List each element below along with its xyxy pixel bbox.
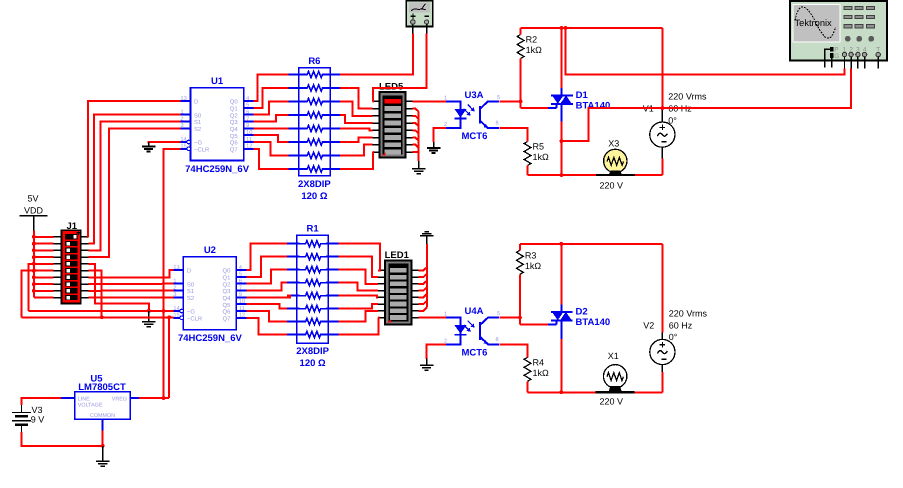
- svg-text:R5: R5: [533, 142, 545, 152]
- svg-text:V2: V2: [643, 320, 654, 330]
- voltage regulator U5 LM7805CT: [61, 374, 139, 431]
- IC U2 74HC259N_6V: [173, 245, 246, 344]
- svg-text:74HC259N_6V: 74HC259N_6V: [185, 164, 250, 175]
- wire top rail R3 D2 V2: [520, 242, 663, 246]
- svg-text:8: 8: [496, 337, 499, 343]
- svg-text:~G: ~G: [187, 309, 195, 316]
- wire U2 Q6 to R1 row7: [246, 311, 287, 322]
- wire J1 pin3 to U1 input: [88, 122, 180, 251]
- svg-text:Q1: Q1: [223, 274, 231, 281]
- resistor R4 1k: [524, 357, 549, 381]
- wire U1 Q5 to R6 row6: [254, 135, 289, 142]
- svg-text:Q2: Q2: [223, 281, 231, 288]
- lamp X1 220V: [596, 351, 635, 407]
- wire R2 bottom to U3A collector node: [519, 59, 523, 109]
- ground at U1 ~G: [142, 142, 156, 152]
- wire R1 row8 to LED1 pin8: [338, 318, 378, 335]
- AC source V1 220Vrms 60Hz: [643, 92, 707, 159]
- svg-text:U2: U2: [204, 245, 216, 256]
- svg-text:G: G: [834, 53, 839, 60]
- svg-text:R4: R4: [533, 357, 545, 367]
- svg-text:1kΩ: 1kΩ: [533, 152, 550, 162]
- svg-text:60 Hz: 60 Hz: [669, 320, 693, 330]
- wire R6 row3 to LED5 pin3: [340, 102, 372, 116]
- svg-text:8: 8: [496, 121, 499, 127]
- svg-text:LED5: LED5: [379, 82, 404, 93]
- resistor pack R6 2X8DIP 120 ohm: [289, 56, 341, 202]
- svg-text:~G: ~G: [194, 140, 202, 147]
- svg-text:Q7: Q7: [230, 146, 238, 153]
- svg-text:13: 13: [173, 265, 179, 271]
- svg-text:X3: X3: [608, 138, 619, 148]
- wire U2 Q0 to R1 row1: [246, 244, 287, 270]
- wire R1 row1 to LED1 pin1: [338, 244, 380, 271]
- svg-text:12: 12: [246, 144, 252, 150]
- wire J1 pin2 to U1 input: [88, 115, 180, 244]
- svg-text:6: 6: [239, 279, 242, 285]
- wire ammeter to LED5 pin1: [373, 34, 427, 102]
- wire U1 Q4 to R6 row5: [254, 127, 289, 129]
- wire D2 MT1: [559, 320, 563, 394]
- svg-text:Q5: Q5: [230, 133, 239, 140]
- ground above LED1: [420, 232, 434, 244]
- wire R4 bottom: [527, 381, 529, 392]
- svg-text:S2: S2: [187, 295, 194, 302]
- svg-text:Q0: Q0: [230, 99, 239, 106]
- wire U2 Q7 to R1 row8: [246, 318, 287, 335]
- wire R6 row5 to LED5 pin5: [340, 129, 372, 131]
- bar LED LED5: [373, 82, 413, 158]
- wire J1 pin5 left loop to ground net: [29, 264, 54, 311]
- wire U1 Q0 to R6 row1: [254, 75, 289, 102]
- ground at U3A cathode: [427, 142, 441, 153]
- svg-text:LM7805CT: LM7805CT: [78, 382, 126, 393]
- svg-text:7: 7: [239, 285, 242, 291]
- wire R1 row2 to LED1 pin2: [338, 257, 378, 277]
- svg-text:2: 2: [173, 285, 176, 291]
- svg-text:220 V: 220 V: [600, 396, 624, 406]
- svg-text:120 Ω: 120 Ω: [300, 358, 326, 369]
- wire U4A collector to node: [499, 317, 520, 319]
- triac D1 BTA140: [551, 90, 610, 111]
- wire U2 Q3 to R1 row4: [246, 283, 287, 291]
- svg-text:Q3: Q3: [230, 119, 239, 126]
- wire R1 row3 to LED1 pin3: [338, 270, 378, 284]
- svg-text:VREG: VREG: [112, 396, 127, 402]
- svg-text:1: 1: [173, 279, 176, 285]
- wire U3A cathode to ground: [434, 128, 446, 142]
- svg-text:5: 5: [497, 311, 500, 317]
- svg-text:S1: S1: [194, 119, 201, 126]
- wire R1 row7 to LED1 pin7: [338, 311, 378, 322]
- wire J1 pin6 right to 5V net: [88, 271, 103, 320]
- wire U4A emitter to R4: [499, 344, 527, 357]
- triac D2 BTA140: [551, 307, 610, 328]
- svg-text:2X8DIP: 2X8DIP: [296, 346, 329, 357]
- svg-text:U4A: U4A: [465, 306, 484, 317]
- svg-text:Q6: Q6: [223, 309, 232, 316]
- wire R1 row5 to LED1 pin5: [338, 296, 378, 298]
- wire R3 bottom to U4A collector node: [518, 274, 522, 324]
- wire R5 bottom: [527, 166, 529, 176]
- ground below LED5: [412, 161, 426, 174]
- optocoupler U4A MCT6: [444, 306, 500, 358]
- svg-text:~CLR: ~CLR: [187, 315, 202, 322]
- svg-text:COMMON: COMMON: [90, 413, 115, 419]
- wire VDD to J1 left pins: [32, 230, 54, 297]
- optocoupler U3A MCT6: [444, 90, 500, 142]
- svg-text:10: 10: [246, 130, 252, 136]
- wire U5 COMMON down: [101, 431, 105, 448]
- svg-text:7: 7: [246, 116, 249, 122]
- svg-text:J1: J1: [67, 221, 78, 232]
- ground at U5 COMMON: [96, 446, 110, 467]
- wire R1 row6 to LED1 pin6: [338, 304, 378, 309]
- svg-text:14: 14: [181, 137, 187, 143]
- svg-text:S2: S2: [194, 126, 201, 133]
- svg-text:6: 6: [246, 110, 249, 116]
- svg-text:9 V: 9 V: [31, 415, 45, 425]
- wire R6 row1 to ammeter: [340, 34, 413, 75]
- svg-text:Q1: Q1: [230, 105, 238, 112]
- wire scope ch1 tap: [566, 28, 845, 74]
- wire 5V net to U2 ~CLR: [21, 315, 173, 319]
- resistor R3 1k: [517, 250, 542, 274]
- wire J1 pin7 to U2 D: [88, 270, 173, 277]
- wire J1 pin9 to U2 S1: [88, 290, 173, 292]
- svg-text:Tektronix: Tektronix: [795, 18, 833, 28]
- svg-text:BTA140: BTA140: [576, 317, 611, 328]
- svg-text:LINE: LINE: [78, 396, 90, 402]
- ground at U4A cathode: [420, 359, 434, 371]
- wire U1 Q1 to R6 row2: [254, 88, 289, 108]
- wire top rail R2 D1 V1: [521, 26, 663, 30]
- svg-text:1kΩ: 1kΩ: [526, 45, 543, 55]
- svg-text:S0: S0: [187, 281, 195, 288]
- resistor R2 1k: [517, 35, 542, 59]
- wire D1 MT1: [560, 104, 564, 177]
- wire V3 minus to common: [22, 432, 103, 446]
- svg-text:D1: D1: [576, 90, 589, 101]
- wire U2 Q4 to R1 row5: [246, 296, 290, 298]
- wire V1 top vertical: [661, 28, 663, 108]
- wire ground net to U2 ~G: [29, 309, 174, 313]
- power VDD 5V symbol: [20, 194, 48, 231]
- svg-text:BTA140: BTA140: [576, 101, 611, 112]
- wire U5 VREG output: [139, 397, 169, 399]
- wire J1 pin4 to U1 input: [88, 128, 180, 257]
- wire R6 row6 to LED5 pin6: [340, 138, 372, 143]
- svg-text:VDD: VDD: [24, 206, 44, 216]
- wire R6 row7 to LED5 pin7: [340, 145, 372, 156]
- wire U1 ~G to ground: [149, 142, 181, 144]
- svg-text:Q7: Q7: [223, 315, 231, 322]
- svg-text:~CLR: ~CLR: [194, 146, 209, 153]
- svg-text:S0: S0: [194, 112, 202, 119]
- wire V3 plus to U5 LINE: [22, 398, 61, 405]
- svg-text:1: 1: [181, 110, 184, 116]
- svg-text:V3: V3: [32, 405, 43, 415]
- wire D1 gate: [521, 104, 557, 108]
- ground at J1 net: [142, 311, 156, 327]
- wire D2 gate: [520, 320, 557, 324]
- svg-text:Q0: Q0: [223, 268, 232, 275]
- svg-text:14: 14: [173, 306, 179, 312]
- DIP switch J1: [54, 221, 89, 303]
- svg-text:Q3: Q3: [223, 288, 232, 295]
- wire LED5 cathodes to ground: [413, 109, 419, 162]
- svg-text:D: D: [194, 99, 198, 106]
- svg-text:VOLTAGE: VOLTAGE: [78, 403, 103, 409]
- svg-text:10: 10: [239, 299, 245, 305]
- wire U2 Q5 to R1 row6: [246, 304, 287, 309]
- wire U1 Q2 to R6 row3: [254, 102, 289, 115]
- svg-text:5V: 5V: [28, 194, 39, 204]
- svg-text:220 Vrms: 220 Vrms: [669, 308, 708, 318]
- wire U1 Q3 to R6 row4: [254, 115, 289, 122]
- lamp X3 220V (lit): [596, 138, 635, 190]
- oscilloscope XSC1 (Tektronix): [790, 1, 887, 69]
- svg-text:3: 3: [181, 123, 184, 129]
- svg-text:15: 15: [173, 313, 179, 319]
- svg-text:D2: D2: [576, 307, 588, 318]
- svg-text:0°: 0°: [668, 116, 677, 126]
- svg-text:MCT6: MCT6: [462, 347, 488, 358]
- wire LED5 pin1 to U3A anode: [413, 100, 446, 102]
- svg-text:R3: R3: [525, 250, 537, 260]
- svg-text:R2: R2: [526, 35, 538, 45]
- svg-text:120 Ω: 120 Ω: [301, 191, 327, 202]
- wire D1 MT1 to V1 link: [561, 106, 664, 141]
- wire U2 ~CLR to U5 VREG: [168, 317, 170, 398]
- svg-text:220 Vrms: 220 Vrms: [668, 92, 707, 102]
- svg-text:11: 11: [239, 306, 245, 312]
- wire R6 row2 to LED5 pin2: [340, 88, 372, 109]
- ammeter XMM1 (multimeter): [406, 1, 433, 34]
- wire U4A cathode to ground: [427, 344, 446, 359]
- svg-text:9: 9: [246, 123, 249, 129]
- svg-text:1kΩ: 1kΩ: [525, 261, 542, 271]
- wire R3 top lead: [519, 244, 521, 250]
- wire J1 pin8 to U2 S0: [88, 283, 173, 285]
- svg-text:3: 3: [173, 292, 176, 298]
- svg-text:15: 15: [181, 144, 187, 150]
- svg-text:2: 2: [181, 116, 184, 122]
- svg-text:0°: 0°: [669, 332, 678, 342]
- svg-text:4: 4: [239, 265, 242, 271]
- wire U1 Q7 to R6 row8: [254, 149, 289, 169]
- svg-text:74HC259N_6V: 74HC259N_6V: [178, 333, 243, 344]
- wire LED1 pin8 to U4A anode: [419, 317, 447, 319]
- svg-text:9: 9: [239, 292, 242, 298]
- wire U3A collector to node: [499, 100, 520, 102]
- wire D1 MT2: [560, 28, 562, 95]
- svg-text:220 V: 220 V: [600, 180, 624, 190]
- svg-text:4: 4: [246, 96, 249, 102]
- svg-text:MCT6: MCT6: [462, 131, 488, 142]
- svg-text:1kΩ: 1kΩ: [533, 368, 550, 378]
- svg-text:U1: U1: [211, 76, 224, 87]
- wire R1 row4 to LED1 pin4: [338, 283, 378, 291]
- svg-text:LED1: LED1: [385, 250, 410, 261]
- svg-text:12: 12: [239, 313, 245, 319]
- wire J1 pin5 right to ground: [88, 264, 149, 311]
- bar LED LED1: [378, 250, 418, 325]
- battery V3 9V: [12, 405, 44, 432]
- svg-text:Q4: Q4: [230, 126, 239, 133]
- svg-text:Q6: Q6: [230, 140, 239, 147]
- wire D2 MT2: [560, 244, 562, 312]
- wire U2 Q2 to R1 row3: [246, 270, 287, 284]
- AC source V2 220Vrms 60Hz: [643, 308, 707, 372]
- wire J1 pin10 to U2 S2: [88, 296, 173, 298]
- wire R2 top lead: [520, 28, 522, 35]
- wire V2 top vertical: [661, 244, 663, 332]
- wire U1 Q6 to R6 row7: [254, 142, 289, 156]
- svg-text:5: 5: [246, 103, 249, 109]
- svg-text:Q4: Q4: [223, 295, 232, 302]
- wire U3A emitter to R5: [499, 128, 527, 141]
- wire U1 ~CLR to U5 VREG: [162, 149, 181, 400]
- svg-text:D: D: [187, 268, 191, 275]
- svg-text:11: 11: [246, 137, 252, 143]
- svg-text:R1: R1: [307, 224, 320, 235]
- resistor R5 1k: [524, 142, 549, 166]
- wire R6 row4 to LED5 pin4: [340, 115, 372, 123]
- IC U1 74HC259N_6V: [181, 76, 254, 175]
- svg-text:U3A: U3A: [465, 90, 484, 101]
- svg-text:R6: R6: [308, 56, 320, 67]
- wire R6 row8 to LED5 pin8: [340, 152, 373, 169]
- wire J1 pin1 to U1 input: [88, 101, 181, 237]
- svg-text:5: 5: [239, 272, 242, 278]
- svg-text:5: 5: [497, 95, 500, 101]
- svg-text:Q5: Q5: [223, 302, 232, 309]
- wire scope ch2 tap: [662, 68, 850, 108]
- svg-text:Q2: Q2: [230, 112, 238, 119]
- svg-text:13: 13: [181, 96, 187, 102]
- wire LED1 anodes to ground: [419, 244, 427, 311]
- svg-text:X1: X1: [608, 351, 619, 361]
- wire bottom rail X3 V1: [528, 159, 663, 176]
- wire bottom rail X1 V2: [528, 372, 663, 392]
- svg-text:S1: S1: [187, 288, 194, 295]
- wire U2 Q1 to R1 row2: [246, 257, 287, 277]
- svg-text:2X8DIP: 2X8DIP: [298, 179, 331, 190]
- wire J1 pin6 left loop to 5V net: [21, 271, 53, 318]
- resistor pack R1 2X8DIP 120 ohm: [287, 224, 339, 370]
